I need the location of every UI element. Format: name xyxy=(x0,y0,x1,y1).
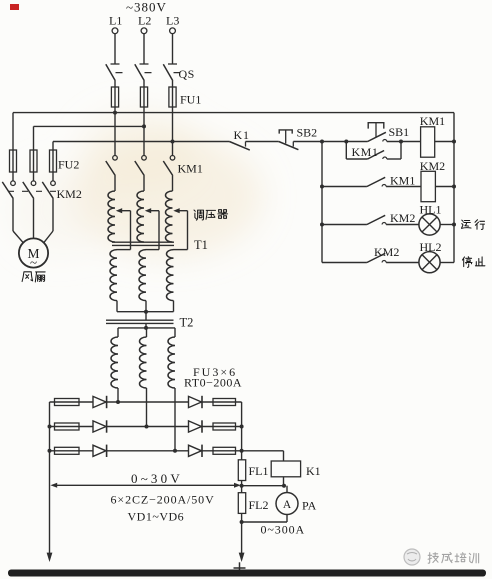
svg-text:VD1~VD6: VD1~VD6 xyxy=(128,509,185,523)
svg-text:SB2: SB2 xyxy=(297,125,318,139)
svg-text:FL2: FL2 xyxy=(249,498,269,512)
svg-text:HL1: HL1 xyxy=(420,202,442,216)
svg-text:FU1: FU1 xyxy=(180,93,201,107)
svg-text:KM2: KM2 xyxy=(420,159,445,173)
svg-text:KM1: KM1 xyxy=(352,145,379,159)
svg-text:6×2CZ−200A/50V: 6×2CZ−200A/50V xyxy=(111,492,215,506)
svg-text:RT0−200A: RT0−200A xyxy=(184,375,242,389)
svg-text:KM2: KM2 xyxy=(374,245,399,259)
svg-text:K1: K1 xyxy=(234,128,250,142)
svg-text:KM2: KM2 xyxy=(57,187,82,201)
svg-text:~: ~ xyxy=(30,255,37,270)
svg-text:FL1: FL1 xyxy=(249,464,269,478)
svg-text:0~30V: 0~30V xyxy=(131,471,183,486)
svg-text:T1: T1 xyxy=(194,238,208,252)
svg-text:~380V: ~380V xyxy=(126,0,167,15)
svg-text:KM1: KM1 xyxy=(390,173,415,187)
svg-text:SB1: SB1 xyxy=(389,125,410,139)
svg-text:FU2: FU2 xyxy=(58,158,79,172)
svg-text:T2: T2 xyxy=(180,316,194,330)
svg-text:KM1: KM1 xyxy=(178,162,203,176)
svg-text:0~300A: 0~300A xyxy=(261,522,306,536)
svg-text:K1: K1 xyxy=(306,464,321,478)
svg-text:A: A xyxy=(283,499,292,511)
svg-text:KM1: KM1 xyxy=(420,114,445,128)
svg-text:QS: QS xyxy=(179,67,195,81)
svg-text:L1: L1 xyxy=(109,14,122,28)
svg-text:PA: PA xyxy=(302,499,317,513)
svg-text:KM2: KM2 xyxy=(390,211,415,225)
svg-text:L2: L2 xyxy=(138,14,151,28)
svg-text:L3: L3 xyxy=(166,14,179,28)
svg-text:HL2: HL2 xyxy=(420,240,442,254)
